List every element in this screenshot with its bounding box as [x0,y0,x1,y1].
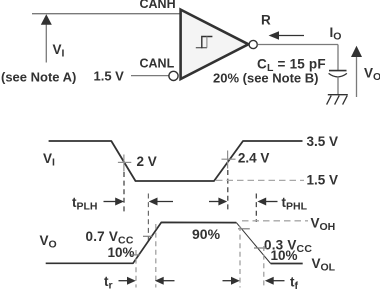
svg-text:1.5 V: 1.5 V [94,69,125,84]
svg-text:VI: VI [53,42,65,60]
arrow tr right [119,277,136,285]
ground [327,95,348,105]
svg-text:VOH: VOH [311,216,336,234]
node 0.3VCC dashed line [255,194,257,223]
node 10% right dashed line [263,246,265,288]
svg-text:VO: VO [364,66,380,84]
svg-text:VI: VI [43,151,55,169]
svg-text:0.7 VCC: 0.7 VCC [86,229,134,247]
svg-text:2 V: 2 V [137,154,157,169]
arrow VO measurement [351,46,362,97]
waveform VO low right [271,263,303,265]
bubble output inverter [249,40,257,48]
svg-text:VO: VO [40,233,57,251]
waveform VO low left [46,222,237,263]
svg-text:tPHL: tPHL [282,195,308,213]
node 90% left dashed line [155,224,157,288]
tick 0.3VCC crossing [254,247,267,249]
capacitor CL [329,71,347,77]
svg-text:tf: tf [290,275,299,293]
svg-text:CANH: CANH [140,0,176,11]
arrow tPHL right [209,198,227,206]
svg-text:tr: tr [104,274,113,292]
arrow tPLH left [149,198,173,206]
svg-text:2.4 V: 2.4 V [238,151,270,166]
hysteresis symbol [196,37,213,49]
node 90% right dashed line [239,226,241,288]
svg-text:tPLH: tPLH [72,195,98,213]
wire VOH dashed level [242,220,308,222]
node 10% left dashed line [135,250,137,288]
tick 10% left crossing [131,254,140,256]
wire 1.5V to CANL bubble [131,75,169,77]
svg-text:3.5 V: 3.5 V [307,134,339,149]
node 0.7VCC dashed line [147,194,149,242]
tick 2V threshold cross [118,155,131,172]
svg-text:20% (see Note B): 20% (see Note B) [213,71,318,86]
node 2.4V dashed line [227,170,229,213]
bubble CANL inverting input [169,71,178,80]
op-amp U1 comparator triangle [181,10,249,79]
svg-text:1.5 V: 1.5 V [307,173,339,188]
tick 2.4V threshold cross [222,151,236,169]
svg-text:CANL: CANL [140,57,175,71]
arrow tf left [265,277,285,285]
svg-text:R: R [261,13,271,28]
wire output horizontal [258,44,339,46]
arrow tf right [223,277,240,285]
svg-text:10%: 10% [271,248,298,263]
wire output vertical to capacitor [337,45,339,71]
arrow R current direction [269,31,304,40]
waveform VO falling edge [236,223,270,264]
svg-text:90%: 90% [192,226,221,242]
node 2V dashed line [123,172,125,213]
tick 90% right crossing [238,228,250,230]
svg-text:(see Note A): (see Note A) [1,70,76,85]
wire capacitor to ground [337,77,339,96]
arrow VI (input voltage) [41,14,52,62]
arrow tPHL left [257,198,277,206]
tick 0.7VCC crossing [143,235,153,237]
wire 1.5V dashed level [216,179,304,181]
svg-text:10%: 10% [108,245,135,260]
waveform VI [49,141,303,181]
arrow tr left [155,277,175,285]
svg-text:IO: IO [330,25,342,43]
svg-text:VOL: VOL [312,256,336,274]
arrow tPLH right [104,198,125,206]
wire CANH input [32,13,180,15]
